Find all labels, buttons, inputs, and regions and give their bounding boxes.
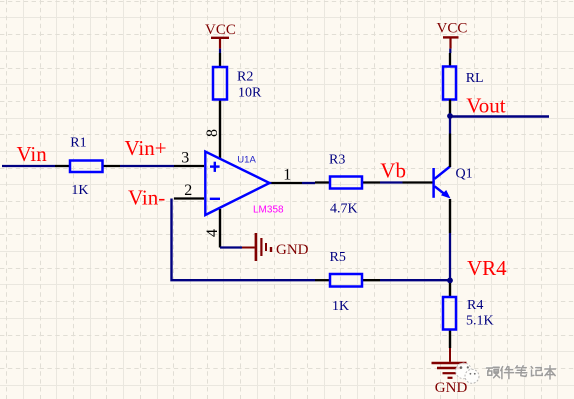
svg-text:Vout: Vout bbox=[466, 93, 505, 117]
ground GND at op-amp pin 4 bbox=[220, 233, 309, 261]
svg-text:4: 4 bbox=[204, 229, 221, 237]
svg-text:Vb: Vb bbox=[380, 159, 406, 183]
svg-text:R3: R3 bbox=[329, 153, 345, 168]
svg-text:1: 1 bbox=[283, 166, 291, 183]
resistor R1 bbox=[55, 136, 120, 199]
svg-text:Vin-: Vin- bbox=[128, 185, 165, 209]
wire R5 to node VR4 bbox=[380, 279, 448, 281]
svg-text:R1: R1 bbox=[70, 136, 86, 151]
svg-text:GND: GND bbox=[276, 242, 309, 258]
svg-text:Vin+: Vin+ bbox=[125, 136, 167, 160]
wire VCC to RL bbox=[449, 49, 451, 53]
resistor RL bbox=[443, 67, 484, 114]
ground GND bottom bbox=[432, 348, 468, 396]
svg-text:Vin: Vin bbox=[17, 142, 48, 166]
resistor R5 bbox=[315, 250, 380, 314]
junction node Vout bbox=[447, 113, 453, 119]
svg-text:VCC: VCC bbox=[205, 22, 236, 38]
wire VCC to R2 bbox=[219, 49, 221, 53]
svg-text:VR4: VR4 bbox=[467, 256, 507, 280]
wire pin 1 to R3 bbox=[302, 182, 315, 184]
svg-text:10R: 10R bbox=[238, 86, 262, 101]
svg-text:VCC: VCC bbox=[437, 21, 468, 37]
wire R1 to pin 3 bbox=[120, 165, 174, 167]
wire Q1 emitter to node VR4 bbox=[449, 233, 451, 278]
svg-text:Q1: Q1 bbox=[456, 167, 473, 182]
svg-text:4.7K: 4.7K bbox=[330, 202, 358, 217]
svg-text:2: 2 bbox=[184, 182, 192, 199]
wire Vin- feedback to R5 bbox=[172, 199, 316, 281]
svg-text:U1A: U1A bbox=[237, 155, 256, 166]
svg-text:5.1K: 5.1K bbox=[466, 313, 494, 328]
resistor R3 bbox=[315, 153, 380, 217]
svg-text:1K: 1K bbox=[71, 183, 88, 198]
svg-text:GND: GND bbox=[435, 380, 468, 396]
wire Vin input bbox=[2, 165, 55, 167]
svg-text:R2: R2 bbox=[237, 70, 253, 85]
junction node VR4 bbox=[447, 278, 453, 284]
power VCC left bbox=[205, 22, 236, 49]
power VCC right bbox=[437, 21, 468, 49]
svg-text:LM358: LM358 bbox=[253, 205, 284, 216]
resistor R4 bbox=[443, 283, 494, 348]
resistor R2 bbox=[213, 67, 262, 101]
svg-text:RL: RL bbox=[466, 71, 484, 86]
wire R3 to Q1 base bbox=[380, 181, 403, 183]
svg-text:8: 8 bbox=[204, 129, 221, 137]
svg-text:1K: 1K bbox=[332, 299, 349, 314]
svg-text:3: 3 bbox=[181, 149, 189, 166]
svg-text:R5: R5 bbox=[330, 250, 346, 265]
op-amp U1A bbox=[174, 100, 302, 248]
svg-text:R4: R4 bbox=[467, 298, 483, 313]
wire Vout to Q1 collector bbox=[449, 118, 451, 134]
watermark logo and text bbox=[456, 363, 556, 383]
transistor Q1 bbox=[403, 134, 473, 234]
wire Vout output bbox=[450, 115, 549, 117]
